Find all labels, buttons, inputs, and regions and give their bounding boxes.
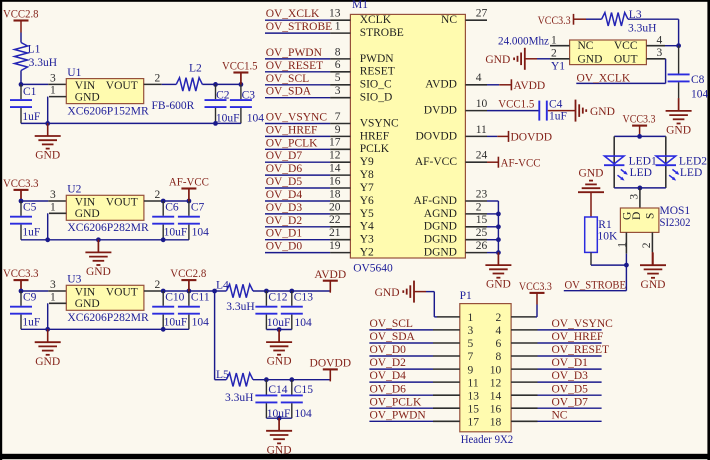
svg-text:5: 5: [468, 338, 474, 350]
svg-text:AGND: AGND: [424, 208, 457, 220]
svg-text:3: 3: [628, 194, 640, 200]
svg-text:GND: GND: [35, 150, 60, 162]
svg-text:AF-VCC: AF-VCC: [501, 157, 541, 169]
wire net OV_D3: [538, 381, 602, 383]
pin 10 DVDD of M1: [424, 98, 488, 117]
wire net OV_D5: [265, 187, 330, 189]
svg-text:DOVDD: DOVDD: [511, 132, 553, 144]
svg-text:GND: GND: [75, 91, 100, 103]
svg-text:OV_PWDN: OV_PWDN: [370, 409, 427, 421]
wire: [162, 200, 189, 202]
svg-text:11: 11: [468, 377, 479, 389]
pin 1 wire of P1: [437, 316, 460, 318]
svg-text:VCC3.3: VCC3.3: [538, 15, 571, 27]
svg-text:2: 2: [496, 312, 502, 324]
svg-text:PCLK: PCLK: [360, 143, 390, 155]
pin 4 AVDD of M1: [425, 72, 487, 91]
svg-text:GND: GND: [485, 54, 510, 66]
svg-text:OV_RESET: OV_RESET: [266, 60, 324, 72]
node junction: [161, 289, 166, 294]
wire: [253, 290, 330, 292]
svg-text:17: 17: [468, 417, 480, 429]
svg-text:OV_STROBE: OV_STROBE: [266, 21, 332, 33]
wire: [21, 239, 189, 241]
svg-text:L4: L4: [216, 280, 229, 292]
svg-text:OV_SDA: OV_SDA: [266, 86, 312, 98]
svg-text:VIN: VIN: [75, 80, 96, 92]
resistor R1 10K: [585, 217, 618, 252]
ferrite bead L2 FB-600R: [152, 63, 203, 112]
svg-text:19: 19: [329, 240, 341, 252]
pin 21 Y3 of M1: [329, 227, 374, 246]
wire: [628, 19, 679, 46]
pin 25 DGND of M1: [424, 227, 488, 246]
svg-text:OV_D4: OV_D4: [370, 370, 407, 382]
svg-text:OV_PCLK: OV_PCLK: [266, 137, 318, 149]
LED1 LED: [604, 136, 657, 188]
svg-text:Y3: Y3: [360, 234, 374, 246]
pin 10 of P1: [490, 364, 538, 376]
node junction: [239, 82, 244, 87]
svg-text:LED2: LED2: [679, 155, 707, 167]
wire net OV_XCLK: [265, 19, 330, 21]
wire net OV_D6: [369, 394, 433, 396]
wire net OV_D3: [265, 213, 330, 215]
svg-text:PWDN: PWDN: [360, 53, 395, 65]
pin 22 Y4 of M1: [329, 214, 374, 233]
pin 6 of P1: [496, 338, 538, 350]
svg-text:C1: C1: [23, 86, 37, 98]
svg-text:DOVDD: DOVDD: [415, 130, 457, 142]
svg-text:VOUT: VOUT: [106, 80, 138, 92]
power port AF-VCC: [169, 177, 209, 201]
node junction: [187, 289, 192, 294]
svg-text:OV_D6: OV_D6: [370, 383, 407, 395]
svg-text:5: 5: [335, 72, 341, 84]
capacitor C2 10uF: [205, 84, 240, 124]
svg-text:24.000Mhz: 24.000Mhz: [498, 36, 549, 48]
svg-text:OV_RESET: OV_RESET: [552, 344, 610, 356]
pin 2 wire of P1: [511, 316, 535, 318]
svg-text:14: 14: [490, 390, 502, 402]
svg-text:OV_VSYNC: OV_VSYNC: [266, 112, 328, 124]
wire: [586, 18, 602, 20]
mosfet MOS1 SI2302: [620, 205, 690, 232]
svg-text:VIN: VIN: [75, 286, 96, 298]
svg-text:Y4: Y4: [360, 221, 374, 233]
svg-text:VCC1.5: VCC1.5: [222, 61, 258, 73]
svg-text:VCC2.8: VCC2.8: [3, 9, 39, 21]
svg-text:XCLK: XCLK: [360, 14, 392, 26]
wire: [21, 328, 189, 330]
node junction: [496, 237, 501, 242]
svg-text:GND: GND: [35, 356, 60, 368]
svg-text:10uF: 10uF: [267, 317, 291, 329]
svg-text:25: 25: [476, 227, 488, 239]
svg-text:D: D: [631, 212, 643, 220]
wire: [21, 83, 48, 85]
svg-text:12: 12: [490, 377, 502, 389]
svg-text:3: 3: [335, 85, 341, 97]
pin 17 PCLK of M1: [329, 137, 390, 156]
regulator U3 XC6206P282MR: [66, 274, 149, 324]
wire net OV_PWDN: [369, 420, 433, 422]
svg-text:3.3uH: 3.3uH: [628, 23, 656, 35]
svg-text:104: 104: [192, 227, 210, 239]
regulator U1 XC6206P152MR: [66, 67, 149, 117]
svg-text:NC: NC: [441, 14, 457, 26]
svg-text:OV_D1: OV_D1: [552, 357, 589, 369]
svg-text:15: 15: [468, 403, 480, 415]
svg-text:AF-VCC: AF-VCC: [415, 156, 458, 168]
svg-text:OV_D7: OV_D7: [552, 396, 589, 408]
pin 7 of P1: [433, 351, 474, 363]
svg-text:15: 15: [476, 214, 488, 226]
node junction: [213, 82, 218, 87]
wire led rail bottom: [614, 187, 666, 189]
svg-text:C13: C13: [294, 292, 313, 304]
svg-text:DGND: DGND: [424, 247, 457, 259]
node junction: [496, 250, 501, 255]
wire: [202, 83, 241, 85]
svg-text:8: 8: [335, 46, 341, 58]
svg-text:OV_D2: OV_D2: [370, 357, 407, 369]
wire net OV_HREF: [265, 135, 330, 137]
wire net OV_D2: [265, 226, 330, 228]
wire net OV_D5: [538, 394, 602, 396]
svg-text:3: 3: [50, 72, 56, 84]
pin 2 of Y1: [550, 48, 570, 60]
svg-text:3.3uH: 3.3uH: [29, 57, 57, 69]
svg-text:C9: C9: [23, 292, 37, 304]
power port AVDD (bar): [499, 79, 545, 92]
power port DOVDD (bar): [497, 131, 552, 144]
ground: [35, 123, 61, 161]
capacitor C15 104: [281, 380, 313, 420]
pin 20 Y5 of M1: [329, 201, 374, 220]
svg-text:C7: C7: [191, 202, 205, 214]
camera sensor M1 OV5640: [350, 0, 465, 274]
svg-text:18: 18: [329, 188, 341, 200]
pin 15 of P1: [433, 403, 479, 415]
node junction: [264, 289, 269, 294]
svg-text:U2: U2: [67, 184, 81, 196]
pin 4 of P1: [496, 325, 538, 337]
svg-text:HREF: HREF: [360, 130, 389, 142]
svg-text:SIO_C: SIO_C: [360, 79, 392, 91]
capacitor C7 104: [178, 201, 209, 240]
svg-text:OV_XCLK: OV_XCLK: [577, 72, 631, 84]
wire net OV_HREF: [538, 342, 602, 344]
svg-text:C11: C11: [191, 292, 210, 304]
svg-text:Y5: Y5: [360, 208, 374, 220]
capacitor C11 104: [178, 291, 210, 329]
capacitor C1 1uF: [10, 84, 40, 123]
svg-text:Y2: Y2: [360, 247, 374, 259]
svg-text:L2: L2: [189, 63, 202, 75]
svg-text:AVDD: AVDD: [425, 79, 457, 91]
svg-text:C14: C14: [268, 384, 287, 396]
node junction: [637, 134, 642, 139]
svg-text:L5: L5: [216, 369, 229, 381]
wire net OV_D0: [265, 252, 330, 254]
power port DOVDD: [310, 358, 352, 382]
inductor L4: [216, 280, 255, 313]
svg-text:9: 9: [335, 124, 341, 136]
svg-text:SI2302: SI2302: [660, 217, 691, 229]
capacitor C12 10uF: [255, 291, 290, 330]
node junction: [161, 199, 166, 204]
pin 2 of U3: [144, 279, 162, 291]
node junction: [213, 121, 218, 126]
pin 1 of Y1: [550, 35, 570, 47]
svg-text:Y1: Y1: [551, 61, 565, 73]
node junction: [45, 237, 50, 242]
pin 3 of MOS1: [628, 188, 640, 208]
svg-text:OV_D5: OV_D5: [552, 383, 589, 395]
svg-text:GND: GND: [578, 53, 603, 65]
svg-text:M1: M1: [352, 0, 368, 11]
pin 1 of P1: [468, 312, 474, 324]
svg-text:MOS1: MOS1: [660, 205, 691, 217]
svg-text:DVDD: DVDD: [424, 105, 457, 117]
capacitor C14 10uF: [255, 380, 290, 420]
wire: [21, 290, 48, 292]
svg-text:OV_SCL: OV_SCL: [266, 73, 309, 85]
pin 19 Y2 of M1: [329, 240, 374, 259]
pin 3 SIO_D of M1: [330, 85, 392, 104]
power port VCC3.3: [3, 178, 39, 202]
wire: [537, 58, 550, 60]
svg-text:4: 4: [476, 72, 482, 84]
svg-text:10K: 10K: [598, 231, 619, 243]
svg-text:OV5640: OV5640: [353, 262, 393, 274]
power port VCC3.3 (bar): [538, 14, 586, 27]
svg-text:1: 1: [616, 242, 628, 248]
svg-text:10uF: 10uF: [164, 227, 188, 239]
node junction: [96, 237, 101, 242]
wire: [162, 290, 215, 292]
wire net OV_D4: [369, 381, 433, 383]
inductor L5: [216, 369, 253, 404]
node junction: [496, 224, 501, 229]
svg-text:AF-GND: AF-GND: [414, 195, 457, 207]
svg-text:22: 22: [329, 214, 341, 226]
svg-text:AF-VCC: AF-VCC: [169, 177, 209, 189]
pin 3 of U3: [48, 279, 66, 291]
wire net NC: [538, 420, 602, 422]
capacitor C8 104: [668, 46, 709, 101]
capacitor C9 1uF: [10, 291, 40, 329]
svg-text:DGND: DGND: [424, 221, 457, 233]
svg-text:4: 4: [657, 34, 663, 46]
pin 17 of P1: [433, 417, 479, 429]
capacitor C3 104: [230, 84, 264, 124]
pin 4 of Y1: [646, 34, 665, 46]
pin 2 of U2: [144, 189, 162, 201]
pin 6 RESET of M1: [330, 59, 395, 78]
power port VCC2.8: [170, 268, 206, 292]
svg-text:OV_D7: OV_D7: [266, 150, 303, 162]
wire net OV_RESET: [538, 355, 602, 357]
svg-text:9: 9: [468, 364, 474, 376]
svg-text:GND: GND: [75, 208, 100, 220]
svg-text:RESET: RESET: [360, 66, 395, 78]
svg-text:SIO_D: SIO_D: [360, 92, 393, 104]
pin 27 NC of M1: [441, 8, 487, 27]
svg-text:AVDD: AVDD: [314, 269, 346, 281]
svg-text:1: 1: [468, 312, 474, 324]
wire net OV_STROBE: [564, 290, 627, 292]
svg-text:OV_SCL: OV_SCL: [370, 318, 413, 330]
pin 1 of U2: [49, 201, 66, 213]
wire: [20, 71, 22, 85]
wire: [47, 213, 49, 240]
svg-text:C5: C5: [23, 202, 37, 214]
wire net OV_PCLK: [265, 148, 330, 150]
svg-text:104: 104: [247, 112, 265, 124]
svg-text:3: 3: [657, 47, 663, 59]
svg-text:Y9: Y9: [360, 156, 374, 168]
svg-text:1uF: 1uF: [549, 111, 567, 123]
capacitor C10 10uF: [152, 291, 187, 329]
svg-text:XC6206P282MR: XC6206P282MR: [67, 312, 149, 324]
svg-text:OV_HREF: OV_HREF: [266, 124, 318, 136]
svg-text:VIN: VIN: [75, 196, 96, 208]
ground: [666, 98, 692, 136]
wire: [590, 192, 592, 217]
svg-text:C8: C8: [691, 74, 705, 86]
pin 12 of P1: [490, 377, 538, 389]
svg-text:3.3uH: 3.3uH: [225, 392, 253, 404]
pin 16 Y7 of M1: [329, 175, 374, 194]
wire: [47, 97, 49, 124]
power port VCC1.5: [222, 61, 258, 85]
pin 3 of P1: [433, 325, 474, 337]
svg-text:C4: C4: [549, 99, 563, 111]
node junction: [277, 416, 282, 421]
node junction: [187, 199, 192, 204]
svg-text:3: 3: [50, 279, 56, 291]
node junction: [45, 121, 50, 126]
pin 15 DGND of M1: [424, 214, 488, 233]
wire: [215, 290, 227, 292]
pin 5 SIO_C of M1: [330, 72, 392, 91]
wire: [20, 33, 22, 43]
svg-text:DGND: DGND: [424, 234, 457, 246]
node junction: [161, 327, 166, 332]
svg-text:GND: GND: [590, 106, 615, 118]
svg-text:VCC3.3: VCC3.3: [623, 113, 656, 125]
svg-text:VCC2.8: VCC2.8: [170, 268, 206, 280]
pin 24 AF-VCC of M1: [415, 150, 488, 169]
wire net OV_VSYNC: [538, 329, 602, 331]
svg-text:2: 2: [155, 189, 161, 201]
pin 2 AGND of M1: [424, 201, 487, 220]
wire net OV_SCL: [369, 329, 433, 331]
regulator U2 XC6206P282MR: [66, 184, 149, 234]
pin 2 of U1: [144, 72, 162, 84]
svg-text:GND: GND: [375, 287, 400, 299]
svg-text:P1: P1: [460, 290, 472, 302]
svg-text:104: 104: [295, 317, 313, 329]
svg-text:OV_SDA: OV_SDA: [370, 331, 416, 343]
header P1 Header 9X2: [460, 290, 514, 446]
wire: [21, 200, 48, 202]
svg-text:GND: GND: [579, 167, 604, 179]
svg-text:C15: C15: [294, 384, 313, 396]
svg-text:OV_D3: OV_D3: [266, 202, 303, 214]
svg-text:OV_D5: OV_D5: [266, 176, 303, 188]
svg-text:OV_PCLK: OV_PCLK: [370, 396, 422, 408]
svg-text:XC6206P152MR: XC6206P152MR: [67, 105, 149, 117]
power port AF-VCC (bar): [487, 157, 541, 170]
node junction: [638, 186, 643, 191]
wire net OV_D1: [265, 239, 330, 241]
ground: [35, 329, 61, 368]
pin 23 AF-GND of M1: [414, 188, 488, 207]
svg-text:GND: GND: [267, 444, 292, 456]
svg-text:14: 14: [329, 163, 341, 175]
svg-text:NC: NC: [552, 409, 568, 421]
svg-text:NC: NC: [578, 40, 594, 52]
svg-text:LED: LED: [680, 167, 702, 179]
node junction: [264, 377, 269, 382]
pin 1 of U1: [49, 85, 66, 97]
svg-text:VCC: VCC: [614, 40, 638, 52]
pin 7 VSYNC of M1: [330, 111, 399, 129]
svg-text:OV_HREF: OV_HREF: [552, 331, 604, 343]
ground: [266, 418, 292, 456]
svg-text:21: 21: [329, 227, 341, 239]
node junction: [45, 327, 50, 332]
svg-text:1: 1: [551, 35, 557, 47]
svg-text:2: 2: [155, 72, 161, 84]
oscillator Y1 24.000Mhz: [498, 36, 646, 73]
svg-text:VSYNC: VSYNC: [360, 117, 399, 129]
wire: [253, 379, 330, 381]
power port VCC3.3: [3, 268, 39, 292]
svg-text:16: 16: [490, 403, 502, 415]
wire gnd bus: [487, 201, 498, 253]
svg-text:1: 1: [50, 85, 56, 97]
svg-text:13: 13: [468, 390, 480, 402]
wire net OV_D6: [265, 174, 330, 176]
wire: [266, 417, 291, 419]
wire led rail top: [614, 135, 666, 137]
svg-text:VCC3.3: VCC3.3: [3, 268, 39, 280]
svg-text:OV_D3: OV_D3: [552, 370, 589, 382]
svg-text:3: 3: [50, 189, 56, 201]
pin 18 Y6 of M1: [329, 188, 374, 207]
ground: [375, 281, 426, 303]
wire net OV_D0: [369, 355, 433, 357]
wire net OV_D7: [265, 161, 330, 163]
wire net OV_D2: [369, 368, 433, 370]
svg-text:1uF: 1uF: [22, 317, 40, 329]
pin 1 STROBE of M1: [330, 21, 404, 40]
svg-text:27: 27: [476, 8, 488, 20]
svg-text:LED: LED: [630, 167, 652, 179]
ground: [578, 167, 604, 192]
svg-text:OV_STROBE: OV_STROBE: [565, 280, 627, 292]
pin 26 DGND of M1: [424, 240, 488, 259]
svg-text:26: 26: [476, 240, 488, 252]
svg-text:AVDD: AVDD: [514, 80, 546, 92]
svg-text:OV_D0: OV_D0: [370, 344, 407, 356]
svg-text:OV_D0: OV_D0: [266, 241, 303, 253]
pin 1 of U3: [49, 291, 66, 303]
